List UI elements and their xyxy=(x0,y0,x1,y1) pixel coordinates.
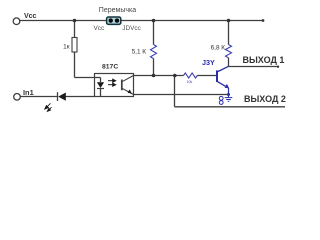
svg-text:J3Y: J3Y xyxy=(202,58,215,67)
svg-text:In1: In1 xyxy=(23,88,34,97)
svg-text:6,8 К: 6,8 К xyxy=(211,45,226,52)
svg-text:10k: 10k xyxy=(187,80,193,84)
svg-text:Перемычка: Перемычка xyxy=(99,7,136,14)
svg-text:Vcc: Vcc xyxy=(94,25,105,32)
svg-text:817C: 817C xyxy=(102,64,118,71)
svg-text:1к: 1к xyxy=(63,43,70,50)
svg-text:5,1 К: 5,1 К xyxy=(132,48,147,55)
svg-text:ВЫХОД 2: ВЫХОД 2 xyxy=(244,94,286,104)
svg-text:ВЫХОД 1: ВЫХОД 1 xyxy=(243,55,285,65)
svg-text:JDVcc: JDVcc xyxy=(122,25,141,32)
svg-text:Vcc: Vcc xyxy=(24,13,37,20)
